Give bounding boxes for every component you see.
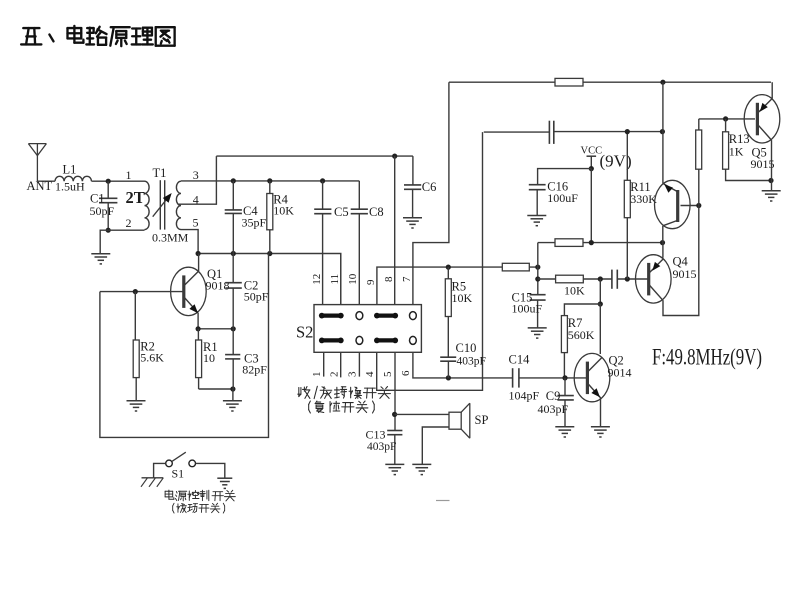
T1 pin 3 label: [193, 168, 199, 182]
wire Q2 collector riser: [599, 279, 601, 304]
S2 contact bar: [374, 338, 398, 344]
wire y389 row: [199, 388, 233, 390]
junction y242/Q3Q4: [660, 240, 665, 245]
junction y131/R11: [625, 129, 630, 134]
label L1: [63, 163, 77, 177]
switch S2 body: [314, 305, 421, 353]
svg-text:50pF: 50pF: [244, 290, 269, 304]
label R7: [568, 316, 583, 330]
svg-text:9014: 9014: [608, 366, 632, 380]
wire T1 pin4 riser: [178, 156, 216, 204]
inductor L1: [55, 176, 91, 181]
wire Q1 collector riser: [198, 254, 200, 272]
capacitor (series y131): [549, 121, 553, 144]
svg-text:100uF: 100uF: [512, 302, 543, 316]
transistor Q4: [636, 255, 672, 303]
label Q4: [673, 255, 689, 269]
wire C3 top lead: [232, 329, 234, 355]
wire R2 bottom lead: [135, 378, 137, 401]
capacitor (Q4 base): [612, 270, 617, 289]
svg-text:T1: T1: [153, 166, 167, 180]
wire S2 pin11 riser: [340, 254, 342, 305]
svg-text:1K: 1K: [729, 144, 744, 158]
svg-text:C9: C9: [546, 389, 561, 403]
junction y242/VCC: [589, 240, 594, 245]
label C2 50pF: [244, 290, 269, 304]
capacitor C9: [557, 396, 573, 400]
svg-text:3: 3: [347, 371, 359, 377]
label S1 function text: [165, 490, 235, 501]
wire C14 to Q2 base: [519, 377, 586, 379]
speaker SP: [449, 403, 470, 438]
wire cap to Q4 base: [617, 278, 648, 280]
svg-text:5.6K: 5.6K: [140, 351, 164, 365]
wire bus y131 right: [554, 131, 663, 133]
svg-text:403pF: 403pF: [538, 402, 569, 416]
transformer T1 right winding: [176, 181, 181, 229]
wire Q2 collector drop: [599, 304, 601, 354]
wire to ground g3: [232, 389, 234, 401]
label R5 10K: [452, 291, 473, 305]
wire C5 top lead: [322, 181, 324, 209]
label 10K: [564, 284, 585, 298]
svg-text:1.5uH: 1.5uH: [55, 180, 85, 194]
svg-text:2T: 2T: [126, 188, 145, 207]
wire Q3 collector drop: [662, 226, 664, 243]
junction pin6/C10: [446, 375, 451, 380]
label Q2 9014: [608, 366, 632, 380]
junction VCC/C16: [589, 166, 594, 171]
label R4: [273, 192, 288, 206]
label Q5 9015: [751, 157, 775, 171]
svg-text:5: 5: [382, 371, 394, 377]
wire Q5 collector riser: [771, 82, 773, 98]
S2 pin 1 label: [311, 372, 323, 378]
resistor R5: [445, 279, 451, 317]
label R4 10K: [273, 203, 294, 217]
wire S2 pin3 stub: [358, 352, 360, 376]
wire Q2 emitter drop: [600, 398, 602, 427]
capacitor C16: [529, 185, 546, 190]
resistor R13: [723, 132, 729, 169]
label C6: [422, 180, 437, 194]
S2 pin 4 label: [364, 371, 376, 377]
ground under R2: [127, 401, 146, 411]
wire S2 pin8 riser: [394, 156, 396, 305]
svg-text:S1: S1: [172, 467, 185, 481]
label S2 function text: [298, 386, 391, 398]
resistor R1: [196, 340, 202, 378]
antenna ANT symbol: [28, 144, 46, 182]
wire C2 bottom lead: [232, 288, 234, 329]
wire R11 top lead: [626, 132, 628, 181]
label R11: [630, 180, 650, 194]
junction y267/R5: [446, 265, 451, 270]
label F:49.8MHz(9V): [652, 345, 762, 370]
wire C1 top lead: [107, 181, 109, 198]
ground under C16: [527, 216, 546, 226]
wire R2 top lead: [134, 292, 136, 340]
svg-text:C5: C5: [334, 205, 349, 219]
svg-text:5: 5: [193, 215, 199, 229]
svg-text:4: 4: [364, 371, 376, 377]
capacitor C6: [404, 185, 421, 189]
wire C6 top lead: [412, 156, 414, 185]
svg-text:104pF: 104pF: [509, 389, 540, 403]
ground under Q5: [762, 191, 781, 201]
label C14 104pF: [509, 389, 540, 403]
capacitor C10: [440, 357, 456, 361]
wire Q5 emitter drop: [771, 140, 773, 191]
wire C1 bottom lead: [107, 203, 109, 231]
label R1: [203, 340, 218, 354]
junction C1/pin2: [106, 228, 111, 233]
wire S1 left: [154, 463, 166, 477]
transistor Q1: [171, 267, 207, 315]
junction y253/R4-feedback: [267, 251, 272, 256]
svg-text:10: 10: [203, 351, 215, 365]
wire C9 top lead: [564, 378, 566, 396]
label C5: [334, 205, 349, 219]
S2 pin 2 label: [328, 372, 340, 378]
label Q1: [207, 267, 222, 281]
svg-text:403pF: 403pF: [367, 441, 396, 453]
ground under R1/C3: [223, 401, 242, 411]
S2 pin 7 label: [401, 276, 413, 282]
resistor R(top): [555, 78, 583, 86]
label 1.5uH: [55, 180, 85, 194]
svg-text:12: 12: [311, 274, 323, 285]
junction y267 end: [535, 276, 540, 281]
capacitor C15: [530, 295, 546, 300]
svg-text:1: 1: [311, 372, 323, 378]
ground under Q2: [591, 427, 610, 437]
resistor R2: [133, 340, 139, 378]
wire VCC drop: [590, 169, 592, 243]
wire Q1 emitter drop: [197, 313, 199, 329]
junction y279/R11: [625, 276, 630, 281]
S2 open contact: [356, 336, 363, 344]
junction emitter/C2C3: [231, 326, 236, 331]
resistor R11: [624, 180, 630, 217]
label R1 10: [203, 351, 215, 365]
transformer T1 left winding: [145, 181, 150, 229]
S2 contact bar: [374, 313, 398, 319]
label S2 reset text: [309, 401, 375, 413]
svg-text:330K: 330K: [630, 192, 657, 206]
T1 pin 4 label: [193, 192, 199, 206]
label C3: [244, 351, 259, 365]
wire Q4 collector loop: [663, 119, 699, 316]
svg-text:560K: 560K: [568, 328, 595, 342]
wire Q4 emitter riser: [662, 243, 664, 258]
label C3 82pF: [242, 363, 267, 377]
junction pin5/speaker: [392, 412, 397, 417]
wire C6 bottom lead: [412, 189, 414, 218]
label R2: [140, 339, 155, 353]
wire feedback loop: [100, 254, 269, 438]
capacitor C5: [314, 209, 331, 214]
label S1: [172, 467, 185, 481]
capacitor C3: [225, 355, 240, 359]
wire R5 to C10: [447, 317, 449, 358]
wire C15 bottom lead: [537, 300, 539, 328]
label Q5: [752, 146, 767, 160]
label S1 type text: [173, 503, 225, 513]
label T1: [153, 166, 167, 180]
junction y118/R13: [723, 116, 728, 121]
wire C10 bottom lead: [447, 361, 449, 378]
svg-text:10K: 10K: [452, 291, 473, 305]
transistor Q5: [744, 95, 780, 143]
svg-text:C13: C13: [366, 428, 386, 442]
label C15: [512, 290, 533, 304]
label R7 560K: [568, 328, 595, 342]
wire S2 pin6 to Q2 base: [413, 352, 513, 378]
S2 contact bar: [319, 338, 344, 344]
capacitor C1: [99, 198, 117, 202]
wire C13 bottom lead: [394, 435, 396, 465]
wire bus y253: [198, 254, 341, 305]
wire R5 top lead: [447, 267, 449, 279]
svg-text:L1: L1: [63, 163, 77, 177]
wire L1 to T1 pin1: [92, 180, 145, 182]
wire S2 pin1 stub: [323, 352, 325, 376]
wire C4 top lead: [232, 181, 234, 210]
svg-text:SP: SP: [475, 413, 489, 427]
wire T1 pin2 to ground: [100, 230, 144, 254]
ground under C1: [91, 254, 110, 264]
label VCC: [581, 145, 603, 156]
wire R1 top lead: [197, 329, 199, 340]
wire top bus y82: [449, 81, 771, 83]
wire bus y242: [538, 242, 663, 244]
svg-text:35pF: 35pF: [242, 216, 267, 230]
junction base/R2: [133, 289, 138, 294]
junction base/R7/C9: [562, 375, 567, 380]
label C8: [369, 205, 384, 219]
junction y253/C2: [231, 251, 236, 256]
label R13: [729, 132, 750, 146]
wire bus y156 to C6: [216, 155, 413, 157]
S2 open contact: [356, 312, 363, 320]
label C10 403pF: [457, 355, 486, 367]
label S2: [296, 323, 313, 342]
resistor R7: [561, 316, 567, 353]
svg-text:F:49.8MHz(9V): F:49.8MHz(9V): [652, 345, 762, 370]
svg-text:S2: S2: [296, 323, 313, 342]
ground under C15: [528, 328, 547, 338]
S2 pin 3 label: [347, 371, 359, 377]
wire S2 pin2 stub: [340, 352, 342, 377]
S2 pin 12 label: [311, 274, 323, 285]
label ANT: [27, 179, 53, 193]
S2 pin 9 label: [365, 279, 377, 285]
svg-text:11: 11: [329, 274, 341, 285]
svg-text:C10: C10: [456, 341, 477, 355]
svg-text:100uF: 100uF: [547, 191, 578, 205]
svg-text:9015: 9015: [673, 267, 697, 281]
junction y131/Q3col: [660, 129, 665, 134]
svg-text:C8: C8: [369, 205, 384, 219]
svg-text:9018: 9018: [206, 278, 230, 292]
label C9 403pF: [538, 402, 569, 416]
junction y389/C3: [230, 386, 235, 391]
label 0.3MM: [152, 230, 189, 244]
ground under C6: [403, 218, 422, 228]
label 50pF: [90, 204, 115, 218]
ground under C9: [555, 427, 574, 437]
S2 open contact: [410, 312, 417, 320]
wire C8 bottom lead to S2 pin10: [358, 214, 360, 305]
svg-text:2: 2: [328, 372, 340, 378]
wire base bus y118: [699, 118, 755, 120]
switch S1: [166, 452, 196, 467]
svg-text:3: 3: [193, 168, 199, 182]
power rail VCC symbol: [587, 156, 597, 168]
T1 pin 2 label: [126, 216, 132, 230]
label C13 403pF: [367, 441, 396, 453]
S2 pin 10 label: [347, 273, 359, 285]
wire C2 top lead: [232, 254, 234, 283]
S2 pin 6 label: [400, 370, 412, 376]
wire speaker return: [422, 427, 449, 464]
wire T1 pin3 bus y181: [181, 180, 359, 182]
wire R4 bottom lead: [269, 230, 271, 254]
S2 contact bar: [319, 313, 344, 319]
transistor Q3 (unlabeled): [655, 180, 691, 228]
junction L1/C1: [106, 179, 111, 184]
resistor R 10K: [556, 275, 584, 283]
label 2T: [126, 188, 145, 207]
wire R13 top lead: [725, 119, 727, 132]
label C15 100uF: [512, 302, 543, 316]
Q3 emitter arrow: [664, 184, 673, 192]
ground under C13: [385, 464, 404, 474]
junction y253/Q1 collector: [196, 251, 201, 256]
svg-text:10K: 10K: [564, 284, 585, 298]
T1 pin 1 label: [126, 168, 132, 182]
chassis ground at S1 left: [141, 478, 163, 487]
junction y279/Q2col: [598, 276, 603, 281]
label C2: [244, 278, 259, 292]
svg-text:50pF: 50pF: [90, 204, 115, 218]
svg-text:9: 9: [365, 279, 377, 285]
junction y82/Q3 column: [660, 80, 665, 85]
Q1 emitter arrow: [189, 304, 198, 313]
label C16 100uF: [547, 191, 578, 205]
label C16: [547, 179, 568, 193]
label SP: [475, 413, 489, 427]
capacitor C4: [225, 210, 242, 214]
svg-text:82pF: 82pF: [242, 363, 267, 377]
wire R11 bottom lead: [626, 218, 628, 279]
S2 open contact: [410, 336, 417, 344]
wire C16 bottom lead: [536, 190, 538, 216]
label C14: [509, 353, 531, 367]
wire C8 top lead: [358, 181, 360, 209]
label 35pF: [242, 216, 267, 230]
svg-text:C6: C6: [422, 180, 437, 194]
label R2 5.6K: [140, 351, 164, 365]
junction Q3 base/column: [696, 203, 701, 208]
transformer T1 core: [160, 180, 164, 229]
wire C9 bottom lead: [564, 400, 566, 427]
wire emitter row y328: [198, 328, 233, 330]
junction y156/pin8: [392, 154, 397, 159]
label Q2: [609, 354, 624, 368]
label C4: [243, 204, 258, 218]
wire S2 pin9 riser and bus y267: [377, 267, 538, 305]
wire bus y131 left: [484, 131, 550, 133]
T1 pin 5 label: [193, 215, 199, 229]
svg-text:7: 7: [401, 276, 413, 282]
T1 tuning arrow: [153, 197, 169, 216]
wire vcc-col y242 to C15: [537, 243, 539, 295]
resistor R(y267): [502, 263, 529, 271]
stray mark: [436, 500, 450, 502]
junction y304/R7: [598, 301, 603, 306]
label Q4 9015: [673, 267, 697, 281]
wire VCC to C16: [538, 169, 592, 185]
capacitor C14: [513, 368, 519, 387]
T1 arrow head: [163, 193, 172, 203]
capacitor C8: [351, 209, 368, 214]
junction pin3/R4: [267, 178, 272, 183]
junction emitter/R1: [196, 326, 201, 331]
label C10: [456, 341, 477, 355]
label R5: [452, 280, 467, 294]
svg-text:0.3MM: 0.3MM: [152, 230, 189, 244]
label C1: [90, 191, 105, 205]
label C9: [546, 389, 561, 403]
wire R7 top link: [564, 304, 600, 316]
wire R4 top lead: [269, 181, 271, 194]
resistor R(y242): [555, 239, 583, 247]
wire S2 pin5 drop to C13: [394, 352, 396, 430]
wire ANT to L1: [37, 180, 55, 182]
svg-text:403pF: 403pF: [457, 355, 486, 367]
wire S2 pin7 riser to top bus: [413, 82, 449, 304]
junction y267/vcc-col: [535, 265, 540, 270]
label (9V): [600, 152, 632, 171]
label R13 1K: [729, 144, 744, 158]
svg-text:10: 10: [347, 273, 359, 285]
wire Q3 base: [681, 205, 699, 207]
label C13: [366, 428, 386, 442]
svg-text:10K: 10K: [273, 203, 294, 217]
wire S2 pin4 jog: [377, 132, 483, 390]
label Q1 9018: [206, 278, 230, 292]
wire T1 pin5 drop: [181, 230, 198, 254]
capacitor C2: [225, 283, 241, 288]
Q4 emitter arrow: [652, 262, 660, 271]
wire to speaker: [395, 413, 449, 415]
Q5 emitter arrow: [760, 103, 768, 112]
transistor Q2: [574, 353, 610, 401]
wire row y279: [538, 278, 612, 280]
wire C5 bottom lead to S2 pin12: [322, 214, 324, 305]
wire C3 bottom lead: [232, 359, 234, 389]
resistor R4: [267, 194, 273, 230]
Q2 emitter arrow: [591, 388, 600, 397]
resistor R(Q5 base): [696, 130, 702, 169]
label R11 330K: [630, 192, 657, 206]
S2 pin 11 label: [329, 274, 341, 285]
wire R7 bottom lead: [563, 353, 565, 378]
wire S1 right: [196, 463, 225, 478]
title text 五、电路原理图: [21, 26, 174, 46]
